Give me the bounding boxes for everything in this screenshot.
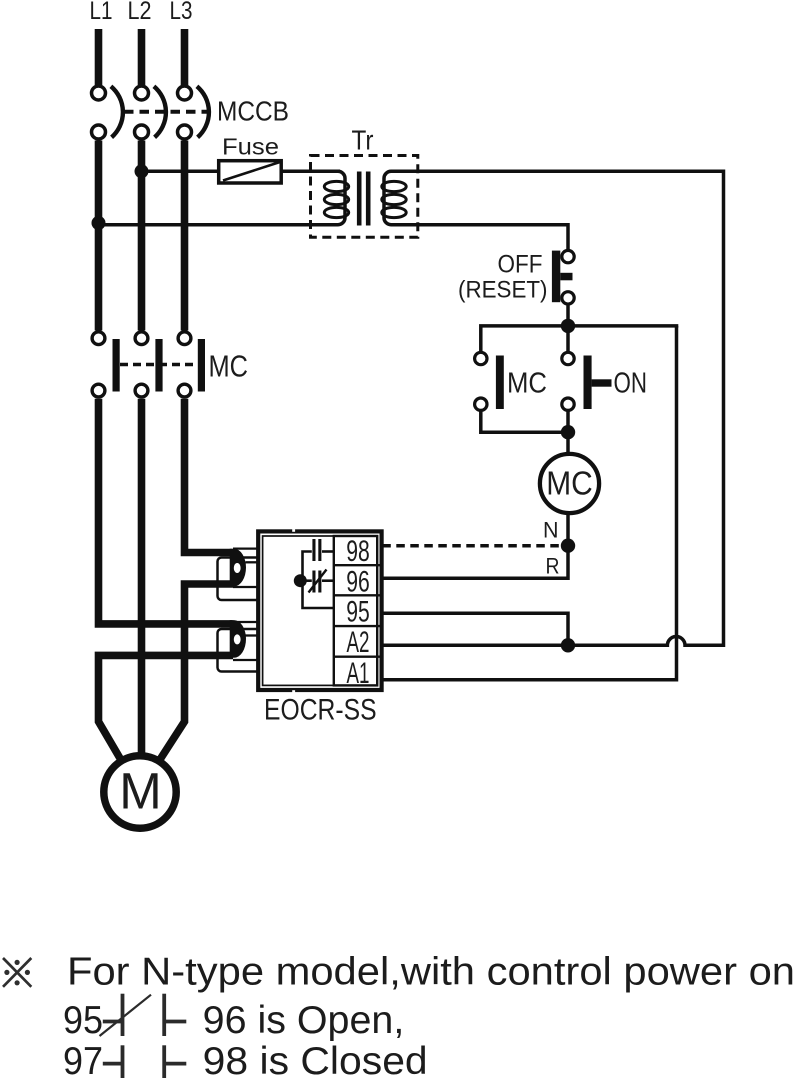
svg-text:MC: MC — [546, 465, 593, 502]
EOCR internal 96 NC contact right bar — [318, 571, 321, 593]
note reference mark — [3, 958, 31, 987]
transformer secondary loop 3 — [382, 207, 406, 217]
coil MC circle — [540, 454, 599, 513]
contact MC aux top terminal — [475, 352, 487, 364]
wire L1 MC down to lower CT feed — [99, 399, 233, 624]
wire MC aux bottom to junction — [481, 411, 568, 433]
wire dashed terminal 98 to N — [382, 544, 568, 548]
wire L3 top stub — [181, 29, 189, 85]
CT upper window frame — [218, 558, 261, 601]
svg-text:OFF: OFF — [498, 251, 543, 279]
breaker MCCB pole 3 top terminal — [178, 86, 192, 100]
junction dot above MC coil — [561, 425, 575, 439]
EOCR box body inner border — [263, 536, 378, 685]
CT lower window frame — [218, 629, 261, 672]
svg-text:R: R — [546, 554, 560, 579]
contactor MC power pole 2 top terminal — [135, 332, 148, 345]
svg-text:A2: A2 — [347, 626, 370, 659]
EOCR terminal column — [334, 536, 377, 685]
svg-text:For N-type model,with control: For N-type model,with control power on — [67, 951, 795, 994]
wire terminal 95 to A2 line — [382, 613, 568, 645]
wire horizontal branch below OFF and drop to MC aux contact — [481, 326, 679, 352]
breaker MCCB pole 2 bottom terminal — [135, 125, 149, 139]
transformer secondary loop 1 — [382, 181, 406, 191]
EOCR terminal row divider 96/95 — [334, 594, 380, 596]
CT upper window thin continuation bottom — [233, 586, 260, 588]
contactor MC power pole 3 bottom terminal — [178, 384, 191, 397]
note line 2 contact symbol left lead — [103, 1020, 123, 1024]
breaker MCCB pole 1 bottom terminal — [92, 125, 106, 139]
CT lower wire return — [99, 655, 234, 759]
wire L1 tap to transformer primary bottom — [99, 171, 346, 224]
svg-text:L3: L3 — [170, 0, 193, 25]
note line 2 contact slash — [100, 995, 152, 1036]
contactor MC power pole 2 bottom terminal — [135, 384, 148, 397]
pushbutton OFF top terminal — [562, 250, 574, 262]
CT upper window thin continuation mid — [246, 561, 261, 563]
transformer primary loop 3 — [324, 207, 348, 217]
svg-text:MCCB: MCCB — [217, 96, 289, 127]
svg-text:95: 95 — [63, 999, 103, 1042]
svg-text:Fuse: Fuse — [222, 134, 279, 160]
note line 3 contact symbol right bar — [162, 1045, 166, 1078]
wire L1 top stub — [95, 29, 103, 85]
breaker MCCB pole 1 top terminal — [92, 86, 106, 100]
note line 3 contact symbol right lead — [164, 1062, 186, 1066]
CT lower wire loop — [230, 620, 246, 658]
EOCR internal 98 NO contact left bar — [312, 539, 315, 561]
CT upper wire loop — [230, 549, 246, 587]
CT upper wire return — [160, 584, 233, 760]
pushbutton OFF NC bar — [552, 251, 560, 303]
EOCR box body outer border — [258, 531, 381, 690]
wire MC coil to N junction and to terminal 96 — [382, 513, 568, 579]
EOCR box border notch top — [292, 529, 295, 532]
svg-text:96: 96 — [346, 566, 370, 599]
svg-text:ON: ON — [614, 368, 648, 400]
wire fuse feed — [142, 170, 219, 174]
fuse diagonal — [223, 162, 280, 181]
pushbutton ON bottom terminal — [562, 398, 574, 410]
wire L2 top stub — [138, 29, 146, 85]
contactor MC linkage dashed — [120, 363, 198, 367]
junction dot 95/A2 — [561, 638, 575, 652]
junction dot fuse tap on L2 — [135, 164, 149, 178]
wire terminal A2 to right rail with hop — [382, 637, 723, 646]
note line 2 contact symbol left bar — [121, 994, 125, 1036]
EOCR internal 98 stub to terminal — [322, 550, 334, 553]
pushbutton OFF bottom terminal — [562, 292, 574, 304]
wire OFF to junction — [566, 304, 570, 326]
EOCR terminal row divider 95/A2 — [334, 625, 380, 627]
wire ON bottom to junction — [566, 411, 570, 433]
svg-text:95: 95 — [346, 596, 370, 629]
contactor MC power pole 1 top terminal — [92, 332, 105, 345]
svg-text:(RESET): (RESET) — [458, 277, 548, 304]
EOCR internal 96 NC contact left bar — [312, 571, 315, 593]
pushbutton ON top terminal — [562, 352, 574, 364]
breaker MCCB pole 1 arc — [111, 86, 123, 137]
svg-text:N: N — [543, 518, 559, 543]
transformer secondary winding and output wires — [384, 171, 724, 647]
svg-text:EOCR-SS: EOCR-SS — [264, 694, 377, 727]
EOCR internal 98 NO contact right bar — [318, 539, 321, 561]
EOCR terminal row divider A2/A1 — [334, 656, 380, 658]
transformer core bar right — [366, 172, 371, 226]
breaker MCCB pole 3 bottom terminal — [178, 125, 192, 139]
pushbutton ON actuator stub — [592, 379, 612, 386]
CT lower window thin continuation mid — [246, 634, 261, 636]
wire L3 MC down to upper CT feed — [185, 399, 233, 553]
wire L2 MCCB to MC — [138, 141, 146, 331]
svg-text:M: M — [119, 763, 161, 820]
EOCR internal junction dot — [294, 574, 307, 587]
svg-text:Tr: Tr — [352, 125, 374, 156]
contactor MC power pole 3 bar — [198, 339, 205, 392]
transformer core bar left — [357, 172, 362, 226]
breaker MCCB pole 3 arc — [197, 86, 209, 137]
svg-text:L2: L2 — [128, 0, 152, 25]
contactor MC power pole 2 bar — [155, 339, 162, 392]
svg-text:A1: A1 — [347, 657, 370, 690]
pushbutton OFF actuator stub — [560, 273, 572, 281]
EOCR internal 96 stub left — [300, 579, 312, 582]
note line 3 contact symbol left lead — [103, 1062, 123, 1066]
contactor MC power pole 1 bottom terminal — [92, 384, 105, 397]
junction dot control tap on L1 — [92, 216, 106, 230]
transformer secondary loop 2 — [382, 194, 406, 204]
fuse body — [219, 161, 282, 183]
motor M circle — [104, 756, 176, 828]
svg-text:L1: L1 — [90, 0, 113, 25]
svg-text:MC: MC — [507, 368, 547, 400]
contactor MC power pole 1 bar — [113, 339, 120, 392]
svg-text:96 is Open,: 96 is Open, — [203, 999, 405, 1042]
svg-text:MC: MC — [209, 349, 249, 384]
svg-text:98: 98 — [346, 535, 370, 568]
transformer primary loop 1 — [324, 181, 348, 191]
CT upper window thin continuation top — [233, 547, 260, 549]
contact MC aux bar — [496, 356, 504, 410]
junction dot below OFF — [561, 319, 575, 333]
note line 3 contact symbol left bar — [121, 1045, 125, 1078]
breaker MCCB pole 2 top terminal — [135, 86, 149, 100]
breaker MCCB linkage dashed — [124, 110, 212, 114]
wire L2 MC to motor — [138, 399, 146, 757]
EOCR internal 96 stub to terminal — [322, 579, 334, 582]
wire fuse to transformer — [281, 170, 340, 174]
breaker MCCB pole 2 arc — [154, 86, 166, 137]
note line 2 contact symbol right bar — [162, 994, 166, 1036]
CT lower window thin continuation top — [233, 621, 260, 623]
contactor MC power pole 3 top terminal — [178, 332, 191, 345]
wire L3 MCCB to MC — [181, 141, 189, 331]
wire terminal A1 up to OFF branch — [382, 326, 676, 680]
transformer Tr dashed box — [311, 156, 418, 238]
junction dot N — [561, 539, 575, 553]
contact MC aux bottom terminal — [475, 398, 487, 410]
transformer primary loop 2 — [324, 194, 348, 204]
EOCR internal common wire — [303, 552, 334, 609]
pushbutton ON bar — [584, 356, 592, 410]
wire L1 MCCB to MC — [95, 141, 103, 331]
CT lower window thin continuation bottom — [233, 659, 260, 661]
wire junction to MC coil — [566, 432, 570, 455]
EOCR internal 96 NC slash — [309, 570, 327, 593]
EOCR terminal row divider 98/96 — [334, 564, 380, 566]
note line 2 contact symbol right lead — [164, 1020, 186, 1024]
svg-text:98 is Closed: 98 is Closed — [203, 1040, 428, 1082]
svg-text:97: 97 — [63, 1040, 103, 1082]
wire down to ON button — [566, 326, 570, 352]
EOCR box border notch bottom — [292, 690, 295, 693]
